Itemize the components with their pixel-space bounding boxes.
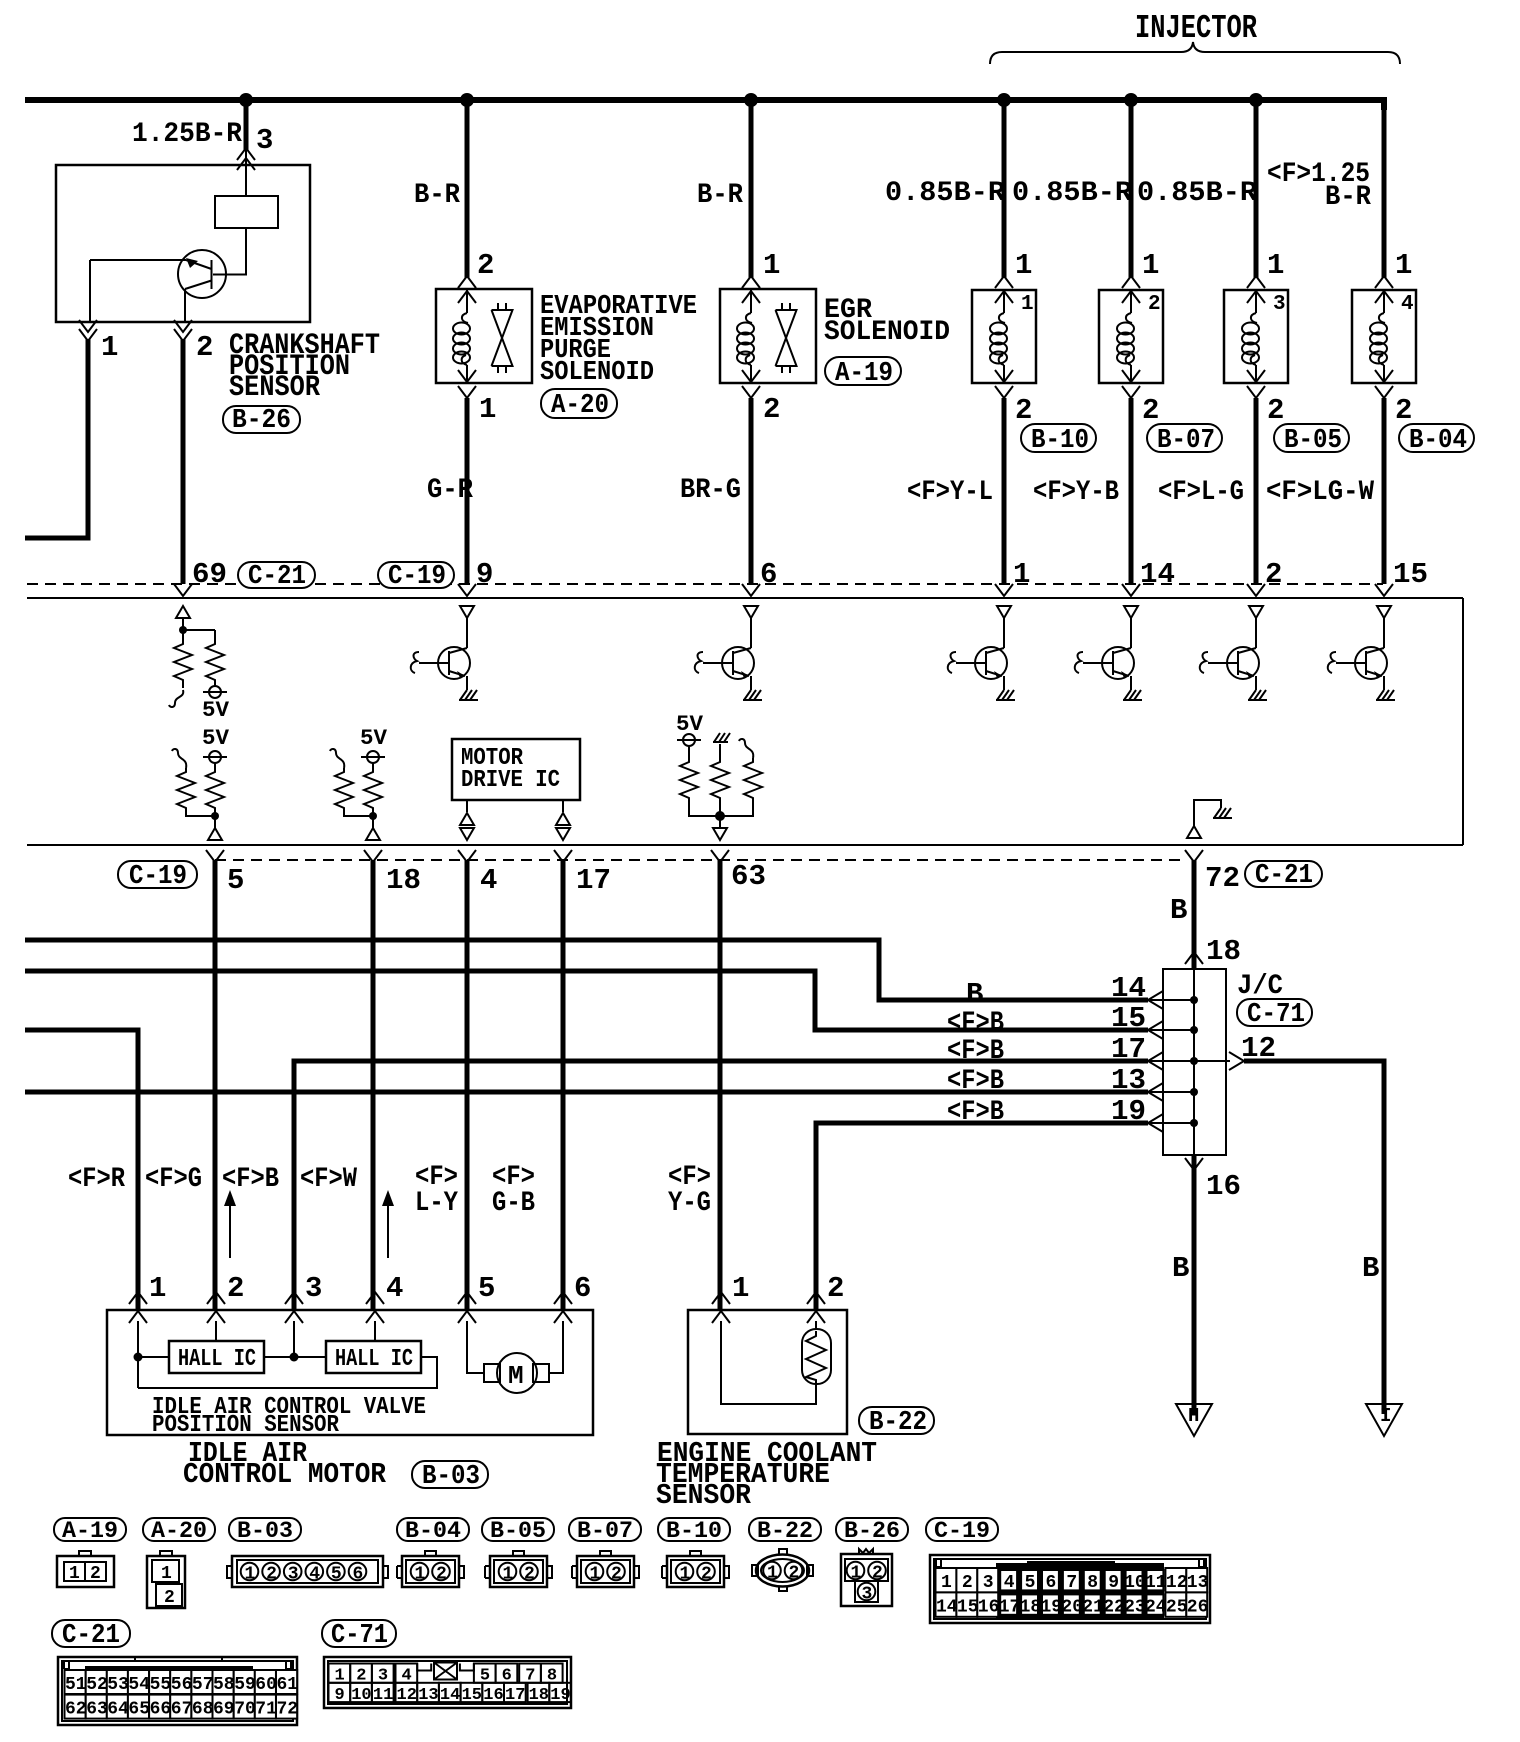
wire IAC4 internal <box>374 1321 376 1341</box>
ECU pin 5 triangle <box>208 828 222 840</box>
transistor Q1 crank sensor <box>178 250 226 298</box>
svg-text:1: 1 <box>1021 293 1034 316</box>
svg-text:53: 53 <box>107 1675 129 1695</box>
wire R5 join <box>186 812 215 828</box>
svg-text:4: 4 <box>1004 1573 1015 1593</box>
svg-text:6: 6 <box>1046 1573 1057 1593</box>
svg-text:C-19: C-19 <box>388 562 446 592</box>
J/C pin 12 lead <box>1194 1060 1230 1062</box>
svg-text:<F>R: <F>R <box>68 1164 125 1195</box>
svg-text:I: I <box>1380 1405 1391 1427</box>
svg-text:C-19: C-19 <box>129 862 187 892</box>
wire IAC2 internal <box>215 1321 217 1341</box>
idle air control motor box B-03 <box>107 1310 593 1435</box>
svg-text:B-10: B-10 <box>1031 426 1089 456</box>
svg-text:9: 9 <box>1108 1573 1119 1593</box>
svg-text:7: 7 <box>1066 1573 1077 1593</box>
wire injector 3 inside top <box>1255 290 1257 313</box>
svg-text:HALL IC: HALL IC <box>335 1346 413 1373</box>
svg-text:0.85B-R: 0.85B-R <box>1012 178 1132 209</box>
svg-text:2: 2 <box>763 393 780 426</box>
solenoid coil L egr <box>737 313 754 365</box>
pin arrows coolant 1-2 <box>712 1292 730 1304</box>
resistor R69a <box>174 640 192 684</box>
svg-text:3: 3 <box>983 1573 994 1593</box>
svg-text:<F>G: <F>G <box>145 1164 202 1195</box>
pin arrow injector 1 top <box>995 276 1013 288</box>
svg-text:B: B <box>1172 1252 1189 1285</box>
svg-text:2: 2 <box>1395 394 1412 427</box>
svg-text:12: 12 <box>397 1686 417 1705</box>
connector A-19 pinout <box>57 1551 114 1587</box>
svg-text:SOLENOID: SOLENOID <box>824 317 950 348</box>
pin arrow 18 <box>364 850 382 862</box>
svg-text:C-21: C-21 <box>248 562 306 592</box>
svg-text:15: 15 <box>1393 558 1428 591</box>
svg-text:62: 62 <box>65 1700 87 1720</box>
svg-text:2: 2 <box>611 1565 622 1585</box>
svg-text:6: 6 <box>353 1565 364 1585</box>
svg-text:23: 23 <box>1124 1597 1146 1617</box>
pin arrow 6 <box>742 584 760 596</box>
connector C-71 pinout <box>324 1657 571 1708</box>
pin arrow crank 1 <box>79 320 97 332</box>
svg-text:5: 5 <box>478 1272 495 1305</box>
svg-text:1: 1 <box>101 331 118 364</box>
wire ECU72 to J/C18 <box>1192 860 1197 968</box>
svg-text:2: 2 <box>477 249 494 282</box>
connector bubble C-21 bottom <box>1245 861 1322 887</box>
svg-text:3: 3 <box>1273 293 1286 316</box>
svg-text:1: 1 <box>161 1564 172 1584</box>
connector bubble C-21 legend <box>52 1620 130 1647</box>
svg-text:<F>B: <F>B <box>947 1066 1004 1097</box>
driver transistor Q2 <box>1249 606 1263 618</box>
node bus-inj3 junction <box>1249 93 1263 107</box>
svg-text:9: 9 <box>476 558 493 591</box>
connector bubble B-22 legend <box>749 1518 821 1541</box>
brace injector group <box>990 42 1400 64</box>
wire B to J/C 14 <box>25 940 1148 1000</box>
motor IC pin 17 leads <box>562 800 564 812</box>
svg-text:A-19: A-19 <box>62 1518 118 1544</box>
svg-text:M: M <box>508 1361 524 1391</box>
svg-text:4: 4 <box>1401 293 1414 316</box>
J/C node 15 <box>1190 1026 1198 1034</box>
wire crank base <box>90 260 186 321</box>
connector B-07 pinout <box>572 1551 639 1587</box>
connector bubble C-19 bottom <box>118 861 197 888</box>
svg-text:72: 72 <box>1205 862 1240 895</box>
svg-text:B-07: B-07 <box>577 1518 633 1544</box>
driver transistor Q14 <box>1124 606 1138 618</box>
svg-text:16: 16 <box>483 1686 503 1705</box>
svg-text:B-26: B-26 <box>844 1518 900 1544</box>
pin arrow injector 1 bottom <box>995 370 1013 382</box>
svg-text:B: B <box>966 978 983 1011</box>
wire (F)B IAC3 to J/C 17 <box>294 1061 1148 1310</box>
svg-text:17: 17 <box>576 864 611 897</box>
wire ECU63 to coolant1 <box>718 860 723 1310</box>
wire (F)B to J/C 13 <box>25 1090 1148 1095</box>
connector bubble B-10 <box>1021 424 1096 452</box>
svg-text:15: 15 <box>462 1686 482 1705</box>
svg-text:B-22: B-22 <box>869 1408 927 1438</box>
wire injector 4 inside bottom <box>1383 365 1385 383</box>
5V supply pin18 <box>361 751 385 763</box>
pin arrow 17 <box>554 850 572 862</box>
svg-text:1: 1 <box>479 393 496 426</box>
wire evap inside bottom <box>466 365 468 383</box>
svg-text:C-21: C-21 <box>1255 861 1313 891</box>
pin arrow injector 4 bottom <box>1375 370 1393 382</box>
wire injector 2 inside bottom <box>1130 365 1132 383</box>
junction box J/C C-71 <box>1163 969 1226 1155</box>
svg-text:21: 21 <box>1082 1597 1104 1617</box>
svg-text:14: 14 <box>440 1686 460 1705</box>
pin arrow crank 3 <box>237 148 255 160</box>
svg-text:L-Y: L-Y <box>415 1188 458 1219</box>
wire injector 4 inside top <box>1383 290 1385 313</box>
resistor R63b <box>711 758 729 802</box>
resistor R69b <box>206 640 224 684</box>
svg-text:Y-G: Y-G <box>668 1188 711 1219</box>
svg-text:1: 1 <box>503 1565 514 1585</box>
svg-text:B-R: B-R <box>697 180 743 211</box>
svg-text:0.85B-R: 0.85B-R <box>1137 178 1257 209</box>
svg-text:2: 2 <box>164 1588 175 1608</box>
svg-text:2: 2 <box>701 1565 712 1585</box>
driver transistor Q15 <box>1377 606 1391 618</box>
svg-text:6: 6 <box>574 1272 591 1305</box>
solenoid coil L evap <box>453 313 470 365</box>
wire injector 4 down to ECU <box>1382 398 1387 584</box>
connector bubble B-26 <box>223 406 300 433</box>
wire egr inside bottom <box>750 365 752 383</box>
connector bubble C-19 top <box>378 562 454 588</box>
svg-text:71: 71 <box>255 1700 277 1720</box>
wire egr inside top <box>750 289 752 313</box>
svg-text:59: 59 <box>234 1675 256 1695</box>
svg-text:17: 17 <box>999 1597 1021 1617</box>
wire evap inside top <box>466 289 468 313</box>
node bus-inj1 junction <box>997 93 1011 107</box>
connector B-22 pinout <box>752 1549 813 1591</box>
svg-text:<F>B: <F>B <box>947 1036 1004 1067</box>
svg-text:9: 9 <box>335 1686 345 1705</box>
wire main B-R bus <box>25 97 1384 103</box>
svg-text:4: 4 <box>386 1272 403 1305</box>
svg-text:HALL IC: HALL IC <box>178 1346 256 1373</box>
svg-text:2: 2 <box>266 1565 277 1585</box>
hall IC 1 box <box>169 1341 264 1373</box>
svg-text:18: 18 <box>529 1686 549 1705</box>
wire IAC6 internal to motor <box>549 1321 563 1373</box>
pin arrow J/C 18 <box>1185 952 1203 964</box>
node bus-EGR junction <box>744 93 758 107</box>
svg-text:2: 2 <box>227 1272 244 1305</box>
injector 4 box <box>1352 290 1416 383</box>
svg-text:A-19: A-19 <box>835 359 893 389</box>
pin arrow crank 2 <box>174 320 192 332</box>
svg-text:4: 4 <box>480 864 497 897</box>
svg-text:B-04: B-04 <box>1409 426 1467 456</box>
pin arrow J/C 16 <box>1185 1158 1203 1170</box>
ECU pin 72 internal ground <box>1187 826 1201 838</box>
svg-text:2: 2 <box>1265 558 1282 591</box>
svg-text:18: 18 <box>386 864 421 897</box>
connector B-04 pinout <box>397 1551 464 1587</box>
svg-text:<F>B: <F>B <box>947 1097 1004 1128</box>
connector bubble C-19 legend <box>926 1518 998 1541</box>
wire EGR drop from bus <box>749 100 754 278</box>
svg-text:C-19: C-19 <box>934 1518 990 1544</box>
svg-text:1: 1 <box>767 1564 778 1584</box>
connector bubble B-07 <box>1147 424 1222 452</box>
driver transistor Q1 <box>997 606 1011 618</box>
svg-text:DRIVE IC: DRIVE IC <box>461 767 560 794</box>
pin arrow 1 <box>995 584 1013 596</box>
svg-text:2: 2 <box>524 1565 535 1585</box>
svg-text:17: 17 <box>1111 1033 1146 1066</box>
driver transistor Q6 <box>744 606 758 618</box>
wire crank pin2 to ECU pin69 <box>181 339 186 584</box>
svg-text:54: 54 <box>128 1675 150 1695</box>
svg-text:63: 63 <box>86 1700 108 1720</box>
svg-text:1: 1 <box>732 1272 749 1305</box>
svg-text:1: 1 <box>69 1564 80 1584</box>
injector 2 box <box>1099 290 1163 383</box>
svg-text:10: 10 <box>1124 1573 1146 1593</box>
driver transistor Q9 <box>460 606 474 618</box>
connector B-10 pinout <box>662 1551 729 1587</box>
pin arrow 5 <box>206 850 224 862</box>
motor drive IC box U1 <box>452 739 580 800</box>
svg-text:B-05: B-05 <box>1284 426 1342 456</box>
wire evap drop from bus <box>465 100 470 278</box>
svg-text:25: 25 <box>1166 1597 1188 1617</box>
svg-text:1: 1 <box>1395 249 1412 282</box>
resistor R63a <box>680 758 698 802</box>
svg-text:4: 4 <box>309 1565 320 1585</box>
EGR solenoid box A-19 <box>720 289 816 383</box>
wire injector 1 inside bottom <box>1003 365 1005 383</box>
svg-text:5: 5 <box>227 864 244 897</box>
wire R18 join <box>344 812 373 828</box>
svg-text:2: 2 <box>1142 394 1159 427</box>
svg-text:B-04: B-04 <box>405 1518 461 1544</box>
svg-text:3: 3 <box>305 1272 322 1305</box>
injector 1 box <box>972 290 1036 383</box>
hook R18a top <box>330 749 344 768</box>
signal direction arrow IAC2 <box>229 1198 231 1258</box>
svg-text:SENSOR: SENSOR <box>229 371 320 405</box>
wire injector 1 inside top <box>1003 290 1005 313</box>
svg-text:13: 13 <box>1187 1573 1209 1593</box>
svg-text:C-21: C-21 <box>62 1621 120 1651</box>
J/C node 17 <box>1190 1057 1198 1065</box>
resistor R63c <box>744 758 762 802</box>
svg-text:1: 1 <box>851 1564 862 1584</box>
svg-text:10: 10 <box>351 1686 371 1705</box>
svg-text:58: 58 <box>213 1675 235 1695</box>
ECU box top line <box>27 597 1463 599</box>
5V supply pin63 <box>677 734 701 746</box>
svg-text:5: 5 <box>331 1565 342 1585</box>
svg-text:2: 2 <box>1267 394 1284 427</box>
coolant sensor internal wires <box>721 1321 816 1404</box>
wire IAC5 internal to motor <box>467 1321 484 1373</box>
svg-text:2: 2 <box>436 1565 447 1585</box>
svg-text:5V: 5V <box>202 698 230 723</box>
connector B-05 pinout <box>485 1551 552 1587</box>
svg-text:19: 19 <box>1111 1095 1146 1128</box>
svg-text:A-20: A-20 <box>151 1518 207 1544</box>
svg-text:B-22: B-22 <box>757 1518 813 1544</box>
svg-text:69: 69 <box>192 558 227 591</box>
connector bubble A-20 legend <box>143 1518 215 1541</box>
svg-text:B-R: B-R <box>414 180 460 211</box>
svg-text:65: 65 <box>128 1700 150 1720</box>
wire (F)R to IAC1 <box>25 1030 138 1310</box>
wire IAC3 internal <box>264 1321 326 1357</box>
signal direction arrow IAC4 <box>387 1198 389 1258</box>
connector bubble B-04 legend <box>397 1518 469 1541</box>
svg-text:1: 1 <box>1015 249 1032 282</box>
svg-text:G-B: G-B <box>492 1188 535 1219</box>
svg-text:20: 20 <box>1061 1597 1083 1617</box>
pin arrow evap 2 <box>458 276 476 288</box>
wire injector 2 down to ECU <box>1129 398 1134 584</box>
5V supply pin69 <box>214 684 216 686</box>
connector C-21 pinout <box>58 1657 298 1725</box>
power arrow I <box>1366 1404 1402 1436</box>
pin arrow injector 2 top <box>1122 276 1140 288</box>
svg-text:1.25B-R: 1.25B-R <box>132 119 242 150</box>
svg-text:C-71: C-71 <box>1247 1000 1305 1030</box>
J/C node 19 <box>1190 1119 1198 1127</box>
svg-text:BR-G: BR-G <box>680 475 741 506</box>
svg-text:1: 1 <box>941 1573 952 1593</box>
connector bubble B-03 <box>412 1461 488 1488</box>
svg-text:B: B <box>1362 1252 1379 1285</box>
connector bubble B-03 legend <box>229 1518 301 1541</box>
svg-text:B-07: B-07 <box>1157 426 1215 456</box>
svg-text:19: 19 <box>1041 1597 1063 1617</box>
svg-text:26: 26 <box>1187 1597 1209 1617</box>
svg-text:70: 70 <box>234 1700 256 1720</box>
ECU pin 63 triangle <box>713 828 727 840</box>
svg-text:1: 1 <box>680 1565 691 1585</box>
hook R63c top <box>739 739 753 758</box>
svg-text:B-03: B-03 <box>237 1518 293 1544</box>
J/C node 14 <box>1190 996 1198 1004</box>
node bus-crank junction <box>239 93 253 107</box>
svg-text:72: 72 <box>277 1700 299 1720</box>
svg-text:2: 2 <box>1015 394 1032 427</box>
svg-text:<F>W: <F>W <box>300 1164 357 1195</box>
pin arrow egr 1 <box>742 276 760 288</box>
resistor R5a <box>177 768 195 812</box>
svg-text:H: H <box>1188 1405 1199 1427</box>
svg-text:18: 18 <box>1020 1597 1042 1617</box>
svg-text:14: 14 <box>936 1597 958 1617</box>
svg-text:2: 2 <box>789 1564 800 1584</box>
5V supply pin5 <box>203 751 227 763</box>
svg-text:19: 19 <box>550 1686 570 1705</box>
ECU pin 69 triangle <box>176 606 190 618</box>
pin arrow 69 <box>174 584 192 596</box>
svg-text:B-10: B-10 <box>666 1518 722 1544</box>
connector bubble B-07 legend <box>569 1518 641 1541</box>
ECU box bottom line <box>27 844 1463 846</box>
svg-text:A-20: A-20 <box>551 391 609 421</box>
connector bubble C-71 legend <box>322 1620 396 1647</box>
injector coil L1 <box>990 313 1007 365</box>
svg-text:5V: 5V <box>360 726 388 751</box>
svg-text:11: 11 <box>373 1686 393 1705</box>
svg-text:G-R: G-R <box>427 475 473 506</box>
svg-text:63: 63 <box>731 860 766 893</box>
connector line C-19/C-21 dashed (bottom) <box>215 859 1186 861</box>
svg-text:1: 1 <box>1013 558 1030 591</box>
power arrow H <box>1176 1404 1212 1436</box>
pin arrow 9 <box>458 584 476 596</box>
svg-text:3: 3 <box>288 1565 299 1585</box>
svg-text:5V: 5V <box>202 726 230 751</box>
wire R63 join <box>689 802 753 828</box>
thermistor RT1 <box>802 1329 831 1384</box>
svg-text:2: 2 <box>827 1272 844 1305</box>
svg-text:INJECTOR: INJECTOR <box>1135 10 1257 47</box>
wire injector 3 inside bottom <box>1255 365 1257 383</box>
pin arrow injector 4 top <box>1375 276 1393 288</box>
ECU box right edge <box>1462 598 1464 845</box>
svg-text:6: 6 <box>760 558 777 591</box>
svg-text:64: 64 <box>107 1700 129 1720</box>
svg-text:0.85B-R: 0.85B-R <box>885 178 1005 209</box>
svg-text:B-05: B-05 <box>490 1518 546 1544</box>
pin arrow 4 <box>458 850 476 862</box>
connector bubble B-05 <box>1274 424 1349 452</box>
injector 3 box <box>1224 290 1288 383</box>
wire egr down to ECU pin6 <box>749 398 754 584</box>
svg-text:3: 3 <box>862 1585 873 1605</box>
node bus-evap junction <box>460 93 474 107</box>
svg-text:1: 1 <box>1142 249 1159 282</box>
svg-text:60: 60 <box>255 1675 277 1695</box>
svg-text:14: 14 <box>1111 972 1146 1005</box>
wire IAC1 internal <box>138 1321 437 1388</box>
wire injector 3 down to ECU <box>1254 398 1259 584</box>
wire ECU17 to IAC6 <box>561 860 566 1310</box>
pin arrows IAC 1-6 <box>129 1292 147 1304</box>
injector coil L4 <box>1370 313 1387 365</box>
motor M armature <box>497 1353 537 1393</box>
pin arrow egr 2 <box>742 370 760 382</box>
pickup coil rect inside sensor <box>215 196 278 228</box>
J/C node 13 <box>1190 1088 1198 1096</box>
svg-text:B-26: B-26 <box>232 406 291 436</box>
injector coil L3 <box>1242 313 1259 365</box>
svg-text:<F>B: <F>B <box>947 1008 1004 1039</box>
pin arrow 14 <box>1122 584 1140 596</box>
svg-text:2: 2 <box>872 1564 883 1584</box>
wire injector 1 down to ECU <box>1002 398 1007 584</box>
svg-text:57: 57 <box>192 1675 214 1695</box>
wire injector 4 drop <box>1382 100 1387 278</box>
hook R69a to comparator <box>182 684 184 688</box>
